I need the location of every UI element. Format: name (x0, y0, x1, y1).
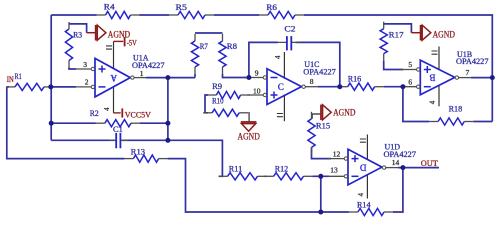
svg-text:OPA4227: OPA4227 (384, 150, 417, 159)
wire R11-R12 (265, 175, 267, 177)
power VCC5V (122, 108, 151, 119)
svg-text:4: 4 (357, 193, 365, 197)
svg-text:6: 6 (408, 78, 412, 87)
resistor R13 (124, 155, 167, 162)
svg-text:B: B (429, 73, 435, 83)
svg-text:R3: R3 (73, 31, 82, 40)
wire top rail R4-R5 (140, 14, 170, 16)
power VCC5V stub from U1A bottom (114, 112, 121, 114)
svg-text:D: D (360, 162, 367, 172)
wire pin6 node down to R18 (403, 87, 429, 122)
wire R15 bottom to pin12 (312, 147, 332, 158)
svg-text:VCC5V: VCC5V (125, 110, 152, 120)
wire top rail R6-right corner, right edge vertical (304, 15, 492, 122)
wire R7 bottom to out node (194, 74, 196, 78)
svg-text:C2: C2 (284, 24, 295, 33)
svg-text:R2: R2 (90, 109, 99, 118)
wire R3 bottom to pin3 (69, 68, 76, 70)
capacitor C2 (278, 36, 300, 50)
wire R9 R10 left link (205, 95, 208, 113)
svg-text:12: 12 (333, 150, 341, 159)
svg-text:5: 5 (408, 60, 412, 69)
svg-text:OPA4227: OPA4227 (303, 68, 336, 77)
svg-text:OPA4227: OPA4227 (456, 57, 489, 66)
wire out8 to R16 (318, 86, 339, 88)
svg-text:A: A (110, 73, 117, 83)
svg-text:-5V: -5V (127, 38, 138, 48)
junction R1/pin2/nodeA (48, 84, 53, 89)
wire R1 to pin2 (52, 86, 76, 88)
svg-text:IN: IN (7, 74, 14, 84)
wire left vertical node A (50, 15, 52, 140)
resistor R2 (96, 120, 140, 127)
resistor R4 (97, 11, 140, 18)
svg-text:C: C (278, 82, 284, 92)
junction pin9/C2 (246, 75, 251, 80)
junction U1B out/right rail (490, 75, 495, 80)
wire R8 bottom to pin9 (223, 74, 251, 78)
svg-text:AGND: AGND (433, 30, 456, 40)
junction pin6/R16/R18 (400, 84, 405, 89)
wire U1A out (146, 77, 195, 79)
wire U1B out to right rail (471, 77, 493, 79)
wire top rail R5-R6 (214, 14, 259, 16)
svg-text:10: 10 (253, 86, 261, 95)
svg-text:R8: R8 (227, 42, 237, 51)
svg-text:R6: R6 (266, 3, 277, 12)
svg-text:R16: R16 (348, 74, 362, 83)
svg-text:14: 14 (392, 158, 400, 167)
wire C2 right to out8 (296, 42, 340, 86)
svg-text:4: 4 (103, 107, 111, 111)
resistor R16 (339, 83, 384, 90)
resistor R18 (429, 118, 473, 125)
wire U1D out to OUT (398, 167, 439, 169)
wire IN down left rail (7, 87, 125, 159)
wire R12 to pin13 (313, 175, 330, 177)
wire C1 node to R11 (168, 140, 223, 176)
wire R10 right lead down to AGND (247, 113, 250, 122)
svg-text:R18: R18 (449, 105, 463, 114)
svg-text:9: 9 (255, 69, 259, 78)
junction U1D out/R14 (400, 165, 405, 170)
wire C2 left vertical (249, 42, 278, 77)
svg-text:R12: R12 (275, 165, 288, 174)
svg-text:R1: R1 (15, 72, 22, 81)
svg-text:8: 8 (310, 77, 314, 86)
wire IN to R1 (7, 86, 9, 88)
op-amp U1D (328, 135, 398, 199)
svg-text:R10: R10 (212, 96, 223, 105)
resistor R5 (169, 11, 214, 18)
wire R16 to pin6 (384, 86, 404, 88)
resistor R17 (380, 22, 387, 61)
resistor R8 (219, 34, 226, 74)
svg-text:C1: C1 (113, 125, 123, 134)
resistor R9 (207, 91, 249, 98)
wire R13 to corner down to bottom rail (168, 159, 349, 212)
ground AGND near R15 (AGND) (321, 105, 356, 121)
resistor R6 (259, 11, 304, 18)
svg-text:3: 3 (83, 60, 87, 69)
junction R2/feedback (165, 121, 170, 126)
junction nodeA/R2 (49, 121, 54, 126)
ground AGND near R3 (AGND) (96, 25, 131, 41)
wire R17 bottom to pin5 (384, 61, 404, 70)
resistor R1 (6, 83, 53, 90)
wire gray lead to AGND near R15 (312, 114, 321, 119)
wire R7R8 top bar (195, 32, 223, 34)
resistor R11 (219, 173, 267, 180)
svg-text:R5: R5 (176, 3, 187, 12)
svg-text:R17: R17 (389, 30, 404, 39)
junction U1A out/feedback (165, 75, 170, 80)
resistor R15 (308, 112, 315, 155)
power -5V (125, 37, 138, 48)
wire R17 top to AGND (384, 24, 412, 33)
svg-text:13: 13 (330, 166, 338, 175)
wire top rail left segment (51, 14, 96, 16)
wire R3 top to AGND (69, 24, 87, 33)
op-amp U1C (247, 52, 318, 121)
svg-text:2: 2 (85, 78, 89, 87)
junction bottom rail/pin13 (318, 210, 323, 215)
wire R9 to pin10 (249, 94, 251, 96)
power -5V stub from U1A top (114, 40, 124, 42)
op-amp U1B (400, 47, 471, 107)
wire R2 rail (51, 122, 168, 124)
svg-text:OUT: OUT (421, 158, 439, 168)
wire R18 right (473, 121, 492, 123)
svg-text:R14: R14 (357, 201, 371, 210)
resistor R3 (65, 22, 72, 68)
resistor R12 (265, 173, 313, 180)
junction C1/feedback (165, 138, 170, 143)
svg-text:R15: R15 (316, 121, 330, 130)
svg-text:R13: R13 (131, 148, 145, 157)
svg-text:R4: R4 (104, 2, 116, 11)
wire C1 rail (51, 139, 168, 141)
svg-text:7: 7 (465, 68, 469, 77)
svg-text:AGND: AGND (333, 108, 356, 118)
svg-text:R11: R11 (229, 165, 242, 174)
ground AGND below R10 (238, 122, 261, 141)
wire pin13 node down (320, 176, 322, 212)
wire bottom rail right of R14 (393, 170, 403, 212)
svg-text:R7: R7 (200, 42, 208, 51)
svg-text:4: 4 (274, 55, 282, 59)
ground AGND near R17 (AGND) (421, 25, 456, 41)
svg-text:R9: R9 (212, 82, 222, 91)
capacitor C1 (109, 133, 128, 148)
wire feedback vertical x168 (167, 78, 169, 141)
resistor R7 (191, 34, 198, 74)
junction R12/pin13 (318, 174, 323, 179)
svg-text:4: 4 (429, 100, 437, 104)
resistor R14 (349, 208, 393, 215)
wire red lead to AGND near R17 (411, 32, 420, 34)
svg-text:1: 1 (140, 69, 144, 78)
junction U1C out/C2 (337, 84, 342, 89)
wire red lead to AGND near R3 (87, 32, 96, 34)
resistor R10 (203, 109, 248, 116)
op-amp U1A (75, 41, 146, 113)
svg-text:OPA4227: OPA4227 (132, 61, 165, 70)
svg-text:AGND: AGND (238, 131, 261, 141)
